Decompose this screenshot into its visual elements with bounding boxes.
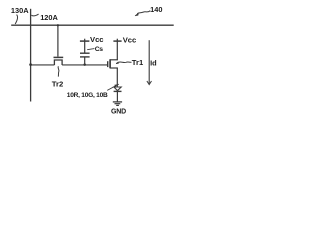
leader for 140 (wavy) [137,11,150,14]
transistor Q Tr1 source stub [110,67,118,69]
current arrow Id head [147,81,152,85]
diode OLED triangle [114,87,121,91]
capacitor C Cs lower lead [84,57,86,65]
svg-text:120A: 120A [40,13,58,22]
transistor Q Tr1 channel bar [109,59,111,68]
leader for 120A [31,14,38,16]
diode OLED cathode bar [114,90,122,92]
capacitor C Cs upper lead to Vcc [84,39,86,53]
ground bar 2 [115,103,121,105]
transistor Q Tr1 drain stub [110,59,118,61]
scan line 130A (horizontal rail) [11,24,174,26]
svg-text:140: 140 [150,5,162,14]
node: junction of 120A and row wire [29,63,32,66]
ground bar 3 [116,104,119,106]
node: junction of Cs lead and row wire [83,63,86,66]
svg-text:130A: 130A [11,6,29,15]
ground bar 1 [113,101,122,103]
transistor Q Tr2 channel [54,60,62,65]
wire: Vcc lead down to Tr1 drain [116,39,118,60]
leader for 130A [15,15,17,24]
svg-text:Cs: Cs [95,46,104,53]
signal line 120A (vertical) [30,9,32,102]
svg-text:Tr2: Tr2 [52,80,64,89]
arrow tip of 140 leader [135,13,138,16]
wire: row wire right segment (Tr2 to Tr1 gate) [62,64,107,66]
power Vcc terminal bar (right, above Tr1) [113,40,121,42]
junction at scan line and Tr2 gate [57,24,59,26]
svg-text:Vcc: Vcc [123,35,137,44]
wire: row wire left segment (120A to Tr2) [31,64,55,66]
svg-text:GND: GND [111,109,126,116]
leader for Cs label [87,49,94,50]
transistor Q Tr2 gate bar [54,56,64,58]
svg-text:Tr1: Tr1 [132,58,144,67]
current arrow Id shaft [148,40,150,83]
leader for Tr1 (arrow + squiggle) [116,62,118,64]
wire: Tr2 gate lead from scan line [57,25,59,57]
leader for 10R/10G/10B label with arrow [107,84,119,90]
leader for Tr2 (squiggle) [57,66,60,76]
svg-text:Id: Id [150,59,157,68]
power Vcc terminal bar (left, above Cs) [80,40,90,42]
transistor Q Tr1 gate bar [107,61,109,67]
capacitor C Cs upper plate [80,52,90,54]
wire: Tr1 source down to OLED [116,68,118,87]
svg-text:Vcc: Vcc [90,35,104,44]
svg-text:10R, 10G, 10B: 10R, 10G, 10B [67,92,108,99]
capacitor C Cs lower plate [80,56,90,58]
wire: OLED cathode to ground [116,92,118,102]
